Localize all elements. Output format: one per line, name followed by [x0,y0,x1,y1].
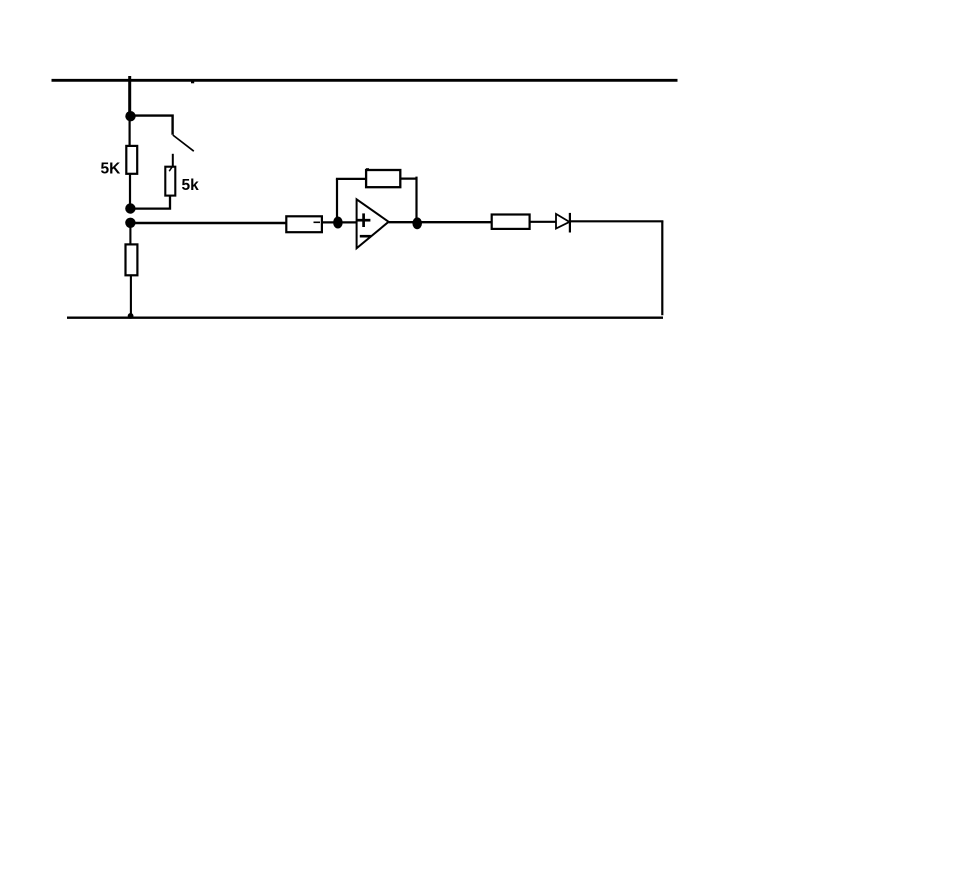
diode D1 [556,214,569,229]
resistor 5K body [126,146,137,174]
tick at R1 top-left [366,168,369,170]
wire top +V rail [52,79,678,82]
wire feedback left riser [336,179,338,222]
wire 5k bottom to node B [134,196,170,209]
diode D1 cathode bar [569,213,571,233]
op-amp minus symbol [360,235,371,238]
wire feedback right riser [415,177,417,223]
switch S1 blade [173,135,194,151]
wire stub inside R2 [314,221,321,223]
node A junction dot [125,111,135,121]
node F small dot at bottom rail [128,313,134,319]
node D junction dot [333,217,343,229]
wire R4 to diode [530,221,556,223]
wire switch top [134,116,173,135]
wire switch bottom stub [172,154,174,167]
wire node C to resistor R2 [130,222,287,225]
wire feedback top right [400,178,417,180]
wire R2 to node D [322,221,340,223]
resistor 5k body [165,167,175,196]
svg-text:5k: 5k [182,177,200,194]
node C junction dot [125,218,135,228]
wire bottom 0V rail [67,317,663,319]
resistor R2 body [286,216,322,232]
wire node A to resistor 5K [129,116,131,147]
svg-text:5K: 5K [101,161,122,178]
resistor R4 body [492,215,530,229]
resistor R1 feedback body [366,170,400,187]
tick at 5k top [169,166,173,171]
wire R3 to bottom rail [130,275,132,316]
wire vertical rail to node A [128,76,131,116]
wire node D to op-amp [338,221,357,223]
op-amp + symbol [357,219,371,222]
wire diode to right corner [570,220,663,222]
wire node C to R3 [129,223,131,245]
wire op-amp output to R4 [389,221,492,223]
node E junction dot [412,217,422,229]
wire right drop [661,221,663,315]
op-amp U1 [357,199,389,248]
wire 5K to node B [129,174,131,209]
wire feedback top left [336,178,367,180]
resistor R3 body [126,244,138,275]
node B junction dot [125,203,135,213]
tick on top rail [191,81,194,83]
